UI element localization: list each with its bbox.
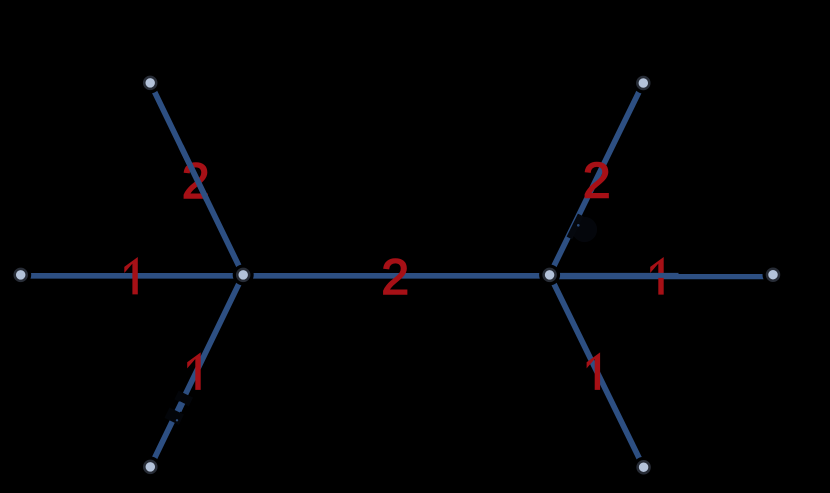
node G (right leaf vertex) (767, 269, 779, 281)
pen trace over edge E-G (552, 273, 679, 278)
pen trace over label on edge B-C (181, 146, 207, 200)
wire: edge E-F (right hub to top-right leaf) (550, 83, 644, 275)
wire: edge B-D (left hub to bottom-left leaf) (150, 275, 243, 467)
node E (right hub vertex) (544, 269, 556, 281)
weight label 1 on edge E-G (650, 257, 664, 295)
pen mark: blue speck inside blot (577, 224, 580, 227)
node halo masks (gap between edges and vertices) (10, 72, 783, 477)
svg-text:2: 2 (381, 249, 409, 305)
wire: edge A-B (left leaf to left hub) (21, 273, 244, 279)
wire: displaced fragment of edge B-D between squiggle cuts (179, 403, 183, 411)
wire: edge B-E (center edge between hubs) (243, 273, 549, 279)
weight label 1 on edge A-B (124, 257, 138, 294)
pen mark: blue speck inside squiggle (176, 419, 178, 421)
node A (left leaf vertex) (15, 269, 27, 281)
weight label 1 on edge E-H (587, 352, 601, 390)
node B (left hub vertex) (237, 269, 249, 281)
node H (bottom-right leaf vertex) (638, 461, 650, 473)
wire: edge E-G (right hub to right leaf) (550, 274, 773, 279)
wire: edge E-H (right hub to bottom-right leaf) (550, 275, 644, 467)
node C (top-left leaf vertex) (144, 77, 156, 89)
node F (top-right leaf vertex) (637, 77, 649, 89)
pen mark: dark squiggle cut 2 on edge B-D (165, 407, 184, 424)
wire: edge B-C (left hub to top-left leaf) (150, 83, 243, 275)
weight label 1 on edge B-D (187, 352, 201, 390)
svg-text:2: 2 (583, 152, 611, 208)
node D (bottom-left leaf vertex) (144, 461, 156, 473)
pen mark: dark ink field right of edge E-F (572, 217, 597, 242)
pen mark: dark blot along edge E-F (569, 215, 580, 238)
pen mark: dark squiggle cut 1 on edge B-D (174, 391, 193, 407)
